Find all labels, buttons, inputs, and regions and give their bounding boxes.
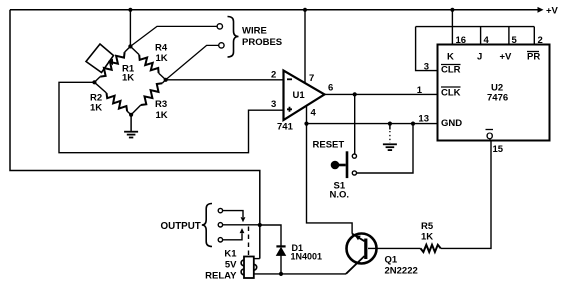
svg-text:K1: K1 <box>224 249 237 260</box>
svg-text:Q1: Q1 <box>385 255 398 266</box>
svg-text:7: 7 <box>309 73 314 84</box>
wire U2 pin15 Q output <box>441 141 491 249</box>
svg-text:Q: Q <box>486 131 493 142</box>
wire +V top rail <box>10 9 538 11</box>
wire bridge top feed <box>129 10 131 47</box>
transistor Q1 2N2222 <box>346 234 418 277</box>
switch S1 pushbutton N.O. <box>313 140 357 201</box>
wire coil top to +V <box>254 258 260 260</box>
wire op-amp pin4 to gnd net <box>306 106 308 124</box>
svg-text:RESET: RESET <box>313 140 345 151</box>
wire bottom rail (coil bottom / D1 anode / Q1 collector) <box>254 273 346 275</box>
resistor R4 1K <box>130 43 167 80</box>
svg-text:1: 1 <box>417 85 423 96</box>
svg-text:1K: 1K <box>156 53 168 64</box>
svg-text:7476: 7476 <box>487 93 508 104</box>
svg-text:GND: GND <box>441 118 462 129</box>
mechanical link dashed <box>248 227 250 257</box>
svg-text:16: 16 <box>456 35 467 46</box>
svg-text:4: 4 <box>484 35 490 46</box>
svg-text:RELAY: RELAY <box>205 271 237 282</box>
IC U2 7476 <box>438 45 550 143</box>
potentiometer arrow R1 <box>86 44 114 73</box>
wire op-amp pin3 input <box>59 82 284 152</box>
svg-text:CLK: CLK <box>441 88 461 99</box>
wire probes label <box>228 17 283 58</box>
svg-text:CLR: CLR <box>441 65 461 76</box>
svg-text:R5: R5 <box>421 221 434 232</box>
svg-text:J: J <box>477 52 482 63</box>
wire probe 2 <box>166 45 219 79</box>
svg-text:1K: 1K <box>421 232 433 243</box>
wire R5 to Q1 base <box>368 247 421 249</box>
svg-text:+V: +V <box>546 6 559 17</box>
ground symbol mid <box>383 124 397 151</box>
probe terminal 1 <box>217 24 222 29</box>
svg-text:5: 5 <box>512 35 518 46</box>
node bridge bottom <box>129 113 133 117</box>
output contacts <box>218 208 260 242</box>
wire op-amp pin6 output to U2 CLK <box>325 93 438 95</box>
svg-text:1K: 1K <box>90 103 102 114</box>
svg-text:13: 13 <box>418 114 429 125</box>
node +V arrow <box>538 6 559 17</box>
svg-text:2: 2 <box>271 70 276 81</box>
svg-text:U1: U1 <box>293 90 306 101</box>
resistor R1 1K <box>94 46 134 83</box>
op-amp U1 741 <box>277 71 325 133</box>
svg-text:K: K <box>447 52 454 63</box>
svg-text:4: 4 <box>311 108 317 119</box>
wire op-amp pin7 to +V <box>304 10 306 83</box>
svg-text:N.O.: N.O. <box>330 190 350 201</box>
probe terminal 2 <box>219 43 224 48</box>
svg-text:PROBES: PROBES <box>242 37 282 48</box>
wire S1 return to gnd net <box>357 124 414 173</box>
diode D1 1N4001 <box>276 243 322 274</box>
wire S1 top feed <box>354 94 356 154</box>
output label <box>161 204 213 247</box>
node bridge top <box>128 44 132 48</box>
svg-text:WIRE: WIRE <box>242 26 267 37</box>
svg-text:2N2222: 2N2222 <box>385 266 418 277</box>
svg-text:R4: R4 <box>155 43 168 54</box>
svg-text:PR: PR <box>527 52 540 63</box>
wire probe 1 <box>130 26 217 46</box>
resistor R2 1K <box>90 82 131 115</box>
svg-text:5V: 5V <box>225 260 237 271</box>
svg-text:3: 3 <box>424 62 429 73</box>
relay coil K1 <box>205 249 257 282</box>
svg-text:1K: 1K <box>156 110 168 121</box>
svg-text:1K: 1K <box>122 73 134 84</box>
svg-text:+V: +V <box>500 52 513 63</box>
svg-text:6: 6 <box>328 83 333 94</box>
svg-text:741: 741 <box>277 122 294 133</box>
svg-text:15: 15 <box>493 144 504 155</box>
svg-text:1N4001: 1N4001 <box>291 252 323 262</box>
svg-text:OUTPUT: OUTPUT <box>161 221 201 232</box>
node bridge right <box>164 78 168 82</box>
wire Q1 emitter to gnd net <box>307 124 353 234</box>
wire gnd net (pin4 to U2 pin13) <box>307 123 438 125</box>
svg-text:3: 3 <box>271 99 276 110</box>
ground bridge <box>124 115 138 138</box>
wire left rail <box>10 10 260 259</box>
wire D1 cathode to +V <box>260 225 281 247</box>
wire U2 top pins bus <box>416 10 535 71</box>
svg-text:R3: R3 <box>155 99 167 110</box>
node pin4 junction <box>304 122 308 126</box>
node +V junction at relay <box>258 223 262 227</box>
node top rail junction A <box>128 8 132 12</box>
svg-text:2: 2 <box>538 35 543 46</box>
resistor R5 1K <box>421 221 441 252</box>
wire op-amp pin2 input <box>166 79 284 81</box>
node bridge left <box>92 80 96 84</box>
resistor R3 1K <box>131 80 168 121</box>
